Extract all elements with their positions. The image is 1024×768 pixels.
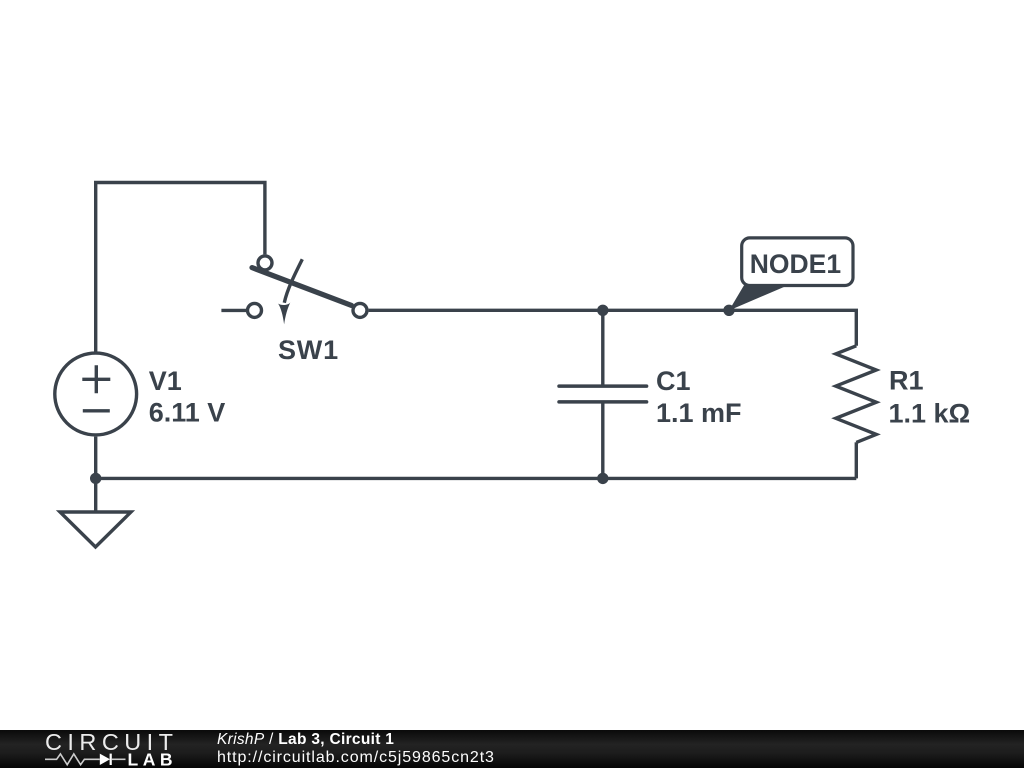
svg-text:6.11 V: 6.11 V [149, 398, 226, 428]
svg-text:V1: V1 [149, 366, 182, 396]
svg-text:LAB: LAB [128, 749, 173, 768]
svg-text:R1: R1 [889, 366, 924, 396]
svg-text:SW1: SW1 [278, 335, 339, 365]
svg-text:C1: C1 [656, 366, 691, 396]
svg-text:NODE1: NODE1 [750, 249, 841, 279]
svg-text:1.1 mF: 1.1 mF [656, 398, 742, 428]
svg-text:1.1 kΩ: 1.1 kΩ [889, 399, 971, 429]
